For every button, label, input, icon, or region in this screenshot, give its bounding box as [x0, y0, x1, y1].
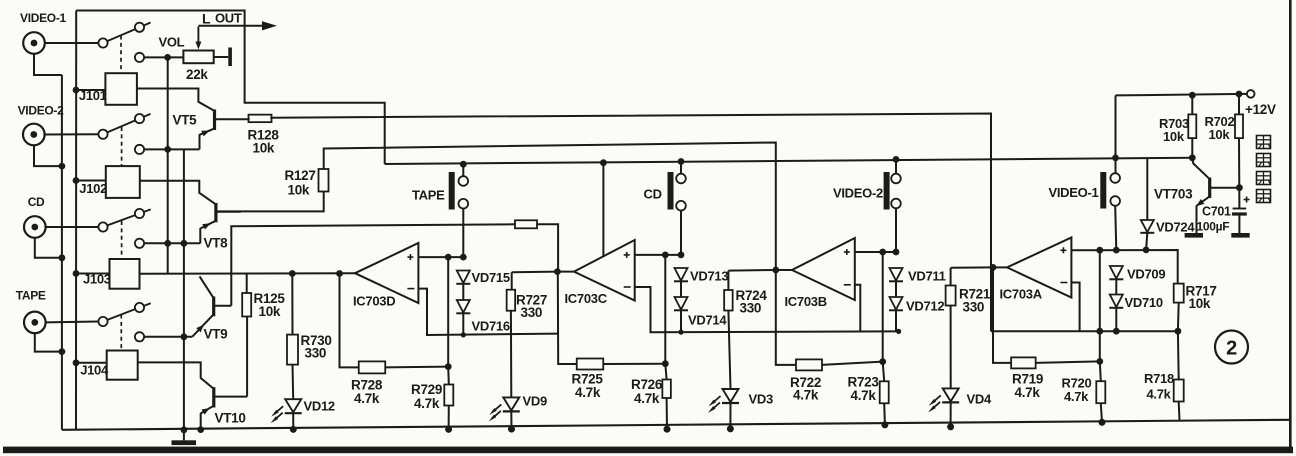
svg-text:22k: 22k — [186, 67, 208, 82]
wire S4 wiper line — [144, 336, 192, 338]
wire mute/ground column x=183.9 — [183, 149, 185, 429]
svg-text:10k: 10k — [1189, 296, 1211, 311]
L OUT arrow — [198, 25, 264, 27]
wire R727 top link — [512, 271, 558, 274]
svg-text:OUT: OUT — [215, 11, 242, 26]
wire IC703B - input bend — [855, 285, 861, 332]
svg-text:VD9: VD9 — [523, 394, 547, 409]
svg-text:R729: R729 — [411, 382, 442, 397]
diode VD712 — [890, 297, 903, 310]
wire S3 wiper line — [144, 242, 200, 244]
svg-text:VD716: VD716 — [472, 319, 510, 334]
diode VD711 — [890, 268, 903, 281]
wire top OUT net — [76, 11, 385, 165]
label reset circuit (Chinese) — [1257, 136, 1271, 149]
pushbutton VIDEO-1 — [1100, 172, 1106, 209]
svg-text:IC703B: IC703B — [785, 294, 827, 309]
svg-text:VT9: VT9 — [204, 327, 228, 342]
svg-text:4.7k: 4.7k — [414, 396, 440, 411]
wire IC703B + input line — [855, 251, 896, 253]
wire +12V feed down to VIDEO-1 switch — [1115, 95, 1117, 173]
diode VD724 — [1146, 159, 1148, 220]
ground C701 — [1231, 233, 1249, 238]
resistor R725 4.7k — [577, 359, 604, 370]
svg-text:10k: 10k — [253, 141, 275, 156]
wire ground column — [61, 75, 63, 430]
svg-text:CD: CD — [644, 187, 662, 202]
pushbutton VIDEO-2 — [884, 172, 890, 210]
resistor R721 330 — [950, 268, 952, 286]
wire power tap IC703C — [600, 159, 607, 166]
op-amp IC703A — [1007, 238, 1071, 298]
capacitor C701 100uF — [1233, 208, 1247, 210]
wire IC703C + input line — [635, 254, 681, 256]
wiper arrow — [197, 27, 199, 44]
resistor R723 4.7k — [883, 362, 885, 382]
svg-text:4.7k: 4.7k — [1064, 389, 1089, 404]
wire feedback vertical stage C — [664, 255, 666, 364]
resistor R726 4.7k — [665, 364, 666, 380]
resistor R727 330 — [511, 272, 513, 290]
svg-text:VT703: VT703 — [1154, 187, 1193, 202]
diode VD714 — [675, 297, 688, 310]
svg-text:TAPE: TAPE — [412, 188, 445, 203]
wire relay coil stubs — [76, 89, 105, 91]
relay J101 — [105, 73, 136, 105]
svg-text:VD709: VD709 — [1127, 267, 1165, 282]
switch S1 (VIDEO-1 select) — [98, 38, 107, 47]
wire input resistor to IC703C output node — [537, 224, 558, 271]
diode VD713 — [675, 268, 688, 281]
resistor R720 4.7k — [1100, 361, 1101, 381]
svg-text:VD714: VD714 — [688, 313, 727, 328]
svg-text:4.7k: 4.7k — [851, 388, 877, 403]
op-amp IC703D — [355, 243, 418, 303]
svg-text:VT5: VT5 — [173, 113, 198, 128]
svg-text:4.7k: 4.7k — [1147, 387, 1172, 402]
wire IC703A output drop to R719 — [993, 267, 1011, 363]
wire IC703B output drop to R722 — [776, 270, 796, 365]
svg-text:330: 330 — [305, 346, 327, 361]
wire IC703D output line — [139, 272, 355, 275]
svg-text:IC703D: IC703D — [353, 294, 395, 309]
transistor VT8 — [214, 203, 217, 222]
svg-text:10k: 10k — [288, 183, 310, 198]
wire IC703D - input to diode return — [418, 289, 558, 335]
svg-text:L: L — [202, 11, 211, 27]
switch S4 (TAPE select) — [98, 317, 107, 326]
svg-text:VIDEO-1: VIDEO-1 — [1049, 185, 1099, 200]
wire +12V top rail — [1116, 94, 1247, 96]
transistor VT5 — [213, 110, 216, 131]
wire feedback vertical stage D — [447, 257, 449, 367]
node IC703C output — [557, 271, 574, 273]
op-amp IC703B — [792, 238, 855, 300]
wire R127 top line to IC703B output — [324, 143, 776, 271]
svg-text:330: 330 — [740, 301, 762, 316]
svg-text:R127: R127 — [285, 168, 316, 183]
svg-text:VD12: VD12 — [304, 399, 335, 414]
resistor R128 10k — [249, 115, 272, 123]
wire R127 bottom to VT8 base — [216, 192, 323, 212]
wire R721 top link — [951, 266, 993, 268]
svg-text:330: 330 — [963, 300, 985, 315]
svg-text:VD3: VD3 — [749, 392, 773, 407]
relay J103 — [110, 259, 140, 289]
svg-text:4.7k: 4.7k — [354, 391, 380, 406]
svg-text:10k: 10k — [1209, 127, 1231, 142]
wire IC703C output drop to R725 — [558, 272, 577, 364]
potentiometer VOL 22k — [183, 51, 213, 64]
jack VIDEO-2 — [23, 124, 45, 146]
wire feedback vertical stage B — [882, 252, 884, 362]
wire VT9 base riser to IC703C input resistor — [231, 224, 515, 305]
wire IC703D + input line — [418, 256, 463, 258]
wire IC703D output drop to R728 — [340, 274, 359, 368]
svg-text:VIDEO-2: VIDEO-2 — [18, 103, 65, 117]
diode VD710 — [1110, 295, 1123, 308]
wire +V bus — [385, 158, 1193, 164]
node IC703B output — [776, 269, 792, 271]
resistor R718 4.7k — [1177, 331, 1180, 379]
switch S3 (CD select) — [98, 222, 107, 231]
wire ground bus bottom — [62, 420, 1290, 430]
svg-text:CD: CD — [28, 195, 45, 209]
svg-text:R718: R718 — [1144, 371, 1174, 386]
resistor R729 4.7k — [447, 367, 450, 385]
resistor R717 10k — [1174, 284, 1184, 303]
svg-text:VD712: VD712 — [906, 299, 944, 314]
diode VD709 — [1110, 266, 1123, 279]
svg-text:IC703A: IC703A — [1000, 287, 1043, 302]
svg-text:VT10: VT10 — [215, 411, 246, 426]
wire S2 wiper line — [144, 148, 199, 150]
wire IC703C - input / diode return line — [635, 287, 899, 332]
wire switch1 lower contact to pot — [144, 56, 183, 58]
wire R724 top link — [728, 269, 775, 272]
transistor VT10 — [212, 387, 215, 407]
wire jack shells to ground column — [34, 54, 62, 75]
svg-text:VD711: VD711 — [908, 269, 946, 284]
pot right terminator — [214, 56, 229, 58]
svg-text:2: 2 — [1226, 338, 1237, 360]
resistor R724 330 — [727, 271, 729, 290]
wire R128 to IC703A feedback — [270, 114, 991, 332]
terminal +12V — [1247, 90, 1255, 98]
dashed mechanical links — [120, 36, 122, 74]
svg-text:TAPE: TAPE — [16, 288, 46, 302]
bottom border bar — [3, 447, 1293, 454]
wire left bus (x=76) — [75, 11, 77, 430]
pushbutton CD — [668, 172, 674, 210]
LED VD3 — [728, 311, 730, 390]
svg-text:100µF: 100µF — [1197, 220, 1230, 234]
svg-text:+12V: +12V — [1245, 102, 1276, 117]
svg-text:4.7k: 4.7k — [575, 385, 601, 400]
ground VT703 emitter — [1185, 233, 1203, 238]
transistor VT9 — [212, 297, 215, 317]
svg-text:10k: 10k — [1163, 129, 1185, 144]
resistor R125 10k — [242, 293, 251, 317]
svg-text:VD724: VD724 — [1156, 220, 1195, 235]
relay J104 — [107, 351, 138, 380]
diode VD715 — [457, 271, 470, 284]
svg-text:VD710: VD710 — [1125, 295, 1163, 310]
resistor (IC703C input) — [515, 220, 537, 228]
jack TAPE — [24, 312, 46, 334]
resistor R127 10k — [319, 169, 329, 192]
ground symbol — [183, 430, 185, 441]
jack CD — [24, 216, 46, 238]
wire R125 to VT10 base — [246, 317, 248, 397]
diode VD716 — [457, 300, 470, 313]
resistor R702 10k — [1238, 94, 1240, 114]
wire feedback vertical stage A — [1099, 250, 1101, 361]
wire VOL signal column x=167.7 — [167, 57, 169, 273]
svg-text:VD713: VD713 — [690, 269, 728, 284]
relay J102 — [106, 166, 140, 198]
LED VD9 — [510, 311, 512, 398]
op-amp IC703C — [574, 240, 635, 301]
resistor R722 4.7k — [796, 359, 822, 370]
right border — [1289, 0, 1292, 447]
resistor R719 4.7k — [1011, 357, 1036, 368]
circled figure number 2 — [1215, 331, 1248, 364]
LED VD12 — [292, 365, 295, 400]
transistor VT703 — [1208, 178, 1211, 199]
svg-text:10k: 10k — [259, 304, 281, 319]
jack VIDEO-1 — [23, 32, 45, 54]
node IC703A output — [993, 266, 1007, 268]
svg-text:R726: R726 — [631, 377, 663, 392]
svg-text:C701: C701 — [1202, 205, 1231, 219]
svg-text:4.7k: 4.7k — [1015, 385, 1041, 400]
wire jack signals — [45, 42, 99, 44]
svg-text:4.7k: 4.7k — [634, 391, 660, 406]
wire feedback line stage A — [991, 330, 1178, 332]
svg-text:J102: J102 — [79, 181, 107, 196]
pushbutton TAPE — [449, 172, 455, 210]
svg-text:4.7k: 4.7k — [793, 388, 819, 403]
resistor R728 4.7k — [359, 361, 386, 373]
svg-text:J104: J104 — [80, 363, 109, 378]
svg-text:IC703C: IC703C — [565, 291, 608, 306]
svg-text:VD715: VD715 — [472, 270, 510, 285]
svg-text:VIDEO-2: VIDEO-2 — [833, 186, 883, 201]
LED VD4 — [950, 306, 952, 389]
svg-text:VT8: VT8 — [204, 236, 229, 251]
wire IC703A + input line to R717 — [1071, 250, 1177, 284]
switch S2 (VIDEO-2 select) — [98, 130, 107, 139]
svg-text:VIDEO-1: VIDEO-1 — [20, 11, 67, 25]
svg-text:VD4: VD4 — [967, 392, 992, 407]
svg-text:VOL: VOL — [159, 35, 185, 50]
svg-text:330: 330 — [521, 305, 543, 320]
resistor R730 330 — [291, 274, 293, 335]
resistor R703 10k — [1191, 95, 1193, 114]
wire IC703A - input bend — [1071, 283, 1079, 332]
